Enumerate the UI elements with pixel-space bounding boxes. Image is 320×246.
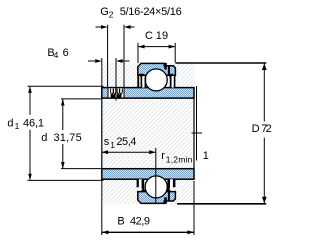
- svg-text:46,1: 46,1: [23, 117, 44, 129]
- svg-text:31,75: 31,75: [54, 132, 82, 144]
- svg-text:5/16-24×5/16: 5/16-24×5/16: [120, 6, 182, 18]
- svg-text:1: 1: [203, 150, 209, 162]
- svg-text:1: 1: [110, 140, 115, 150]
- svg-text:19: 19: [156, 30, 168, 42]
- svg-text:42,9: 42,9: [130, 216, 150, 228]
- svg-text:1: 1: [15, 121, 20, 131]
- svg-text:2: 2: [109, 10, 114, 20]
- svg-text:4: 4: [54, 50, 59, 60]
- svg-text:G: G: [100, 6, 109, 18]
- svg-text:s: s: [104, 136, 110, 148]
- svg-text:D: D: [252, 123, 260, 135]
- svg-text:72: 72: [261, 123, 272, 135]
- svg-text:d: d: [41, 132, 47, 144]
- svg-text:C: C: [145, 30, 153, 42]
- svg-text:6: 6: [63, 47, 69, 59]
- svg-text:B: B: [117, 216, 124, 228]
- svg-text:d: d: [7, 118, 13, 130]
- svg-text:25,4: 25,4: [116, 136, 136, 148]
- svg-text:1,2min: 1,2min: [166, 155, 193, 165]
- svg-text:r: r: [161, 150, 165, 162]
